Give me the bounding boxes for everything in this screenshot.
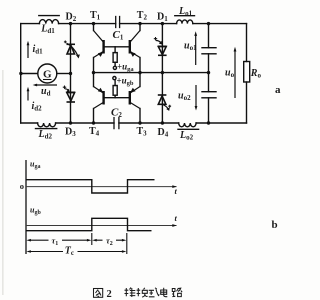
svg-text:G: G [43,69,52,81]
svg-text:o: o [20,181,24,191]
svg-text:b: b [272,219,278,231]
svg-text:2: 2 [107,289,112,300]
svg-text:a: a [275,84,281,96]
